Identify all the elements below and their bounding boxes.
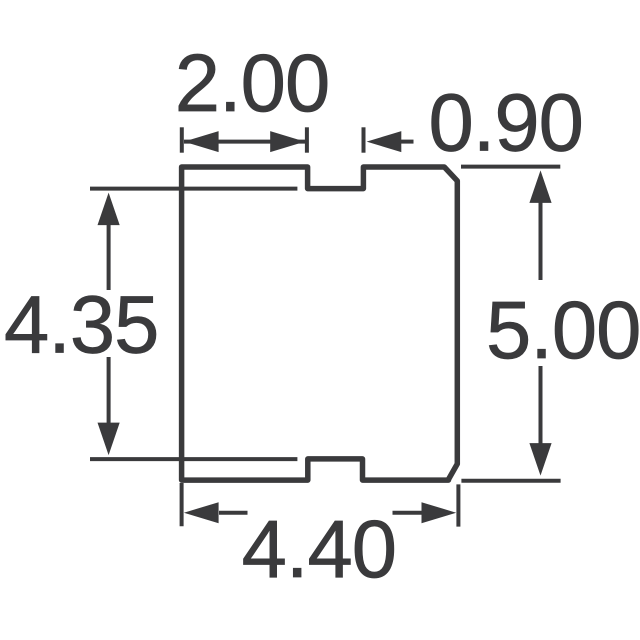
dim 4.40 extension line right xyxy=(456,484,460,526)
dim 0.90 extension tick xyxy=(362,127,366,152)
dim 5.00 extension line bottom xyxy=(461,479,560,483)
dim 2.00 extension tick left xyxy=(180,127,184,152)
svg-text:4.35: 4.35 xyxy=(4,279,158,370)
dim 5.00 line upper segment xyxy=(539,201,543,280)
dim 4.40 arrowhead right xyxy=(422,502,457,523)
dim 5.00 extension line top xyxy=(461,165,560,169)
dim 4.35 extension line bottom xyxy=(90,457,297,461)
dim 2.00 extension tick right xyxy=(305,127,309,152)
svg-text:4.40: 4.40 xyxy=(242,504,396,595)
dim 2.00 arrowhead left xyxy=(184,131,219,152)
dim 2.00 arrowhead right xyxy=(270,131,305,152)
dim 4.40 line right segment xyxy=(393,511,422,515)
dim 4.40 line left segment xyxy=(219,511,248,515)
dim 4.35 line lower segment xyxy=(107,357,111,427)
package body outline xyxy=(182,167,458,480)
svg-text:5.00: 5.00 xyxy=(486,285,640,376)
dim 4.35 line upper segment xyxy=(107,223,111,290)
svg-text:0.90: 0.90 xyxy=(429,78,583,169)
dim 2.00 line xyxy=(184,140,305,144)
dim 0.90 leader tail xyxy=(401,140,414,144)
dim 0.90 arrowhead xyxy=(367,131,402,152)
dim 4.35 arrowhead down xyxy=(98,423,120,456)
dim 4.40 arrowhead left xyxy=(184,502,219,523)
svg-text:2.00: 2.00 xyxy=(175,38,329,129)
dim 5.00 arrowhead down xyxy=(529,443,551,476)
dim 4.35 arrowhead up xyxy=(98,193,120,226)
dim 4.40 extension line left xyxy=(180,483,184,526)
dim 5.00 arrowhead up xyxy=(529,170,551,203)
dim 4.35 extension line top xyxy=(90,187,297,191)
dim 5.00 line lower segment xyxy=(539,366,543,444)
